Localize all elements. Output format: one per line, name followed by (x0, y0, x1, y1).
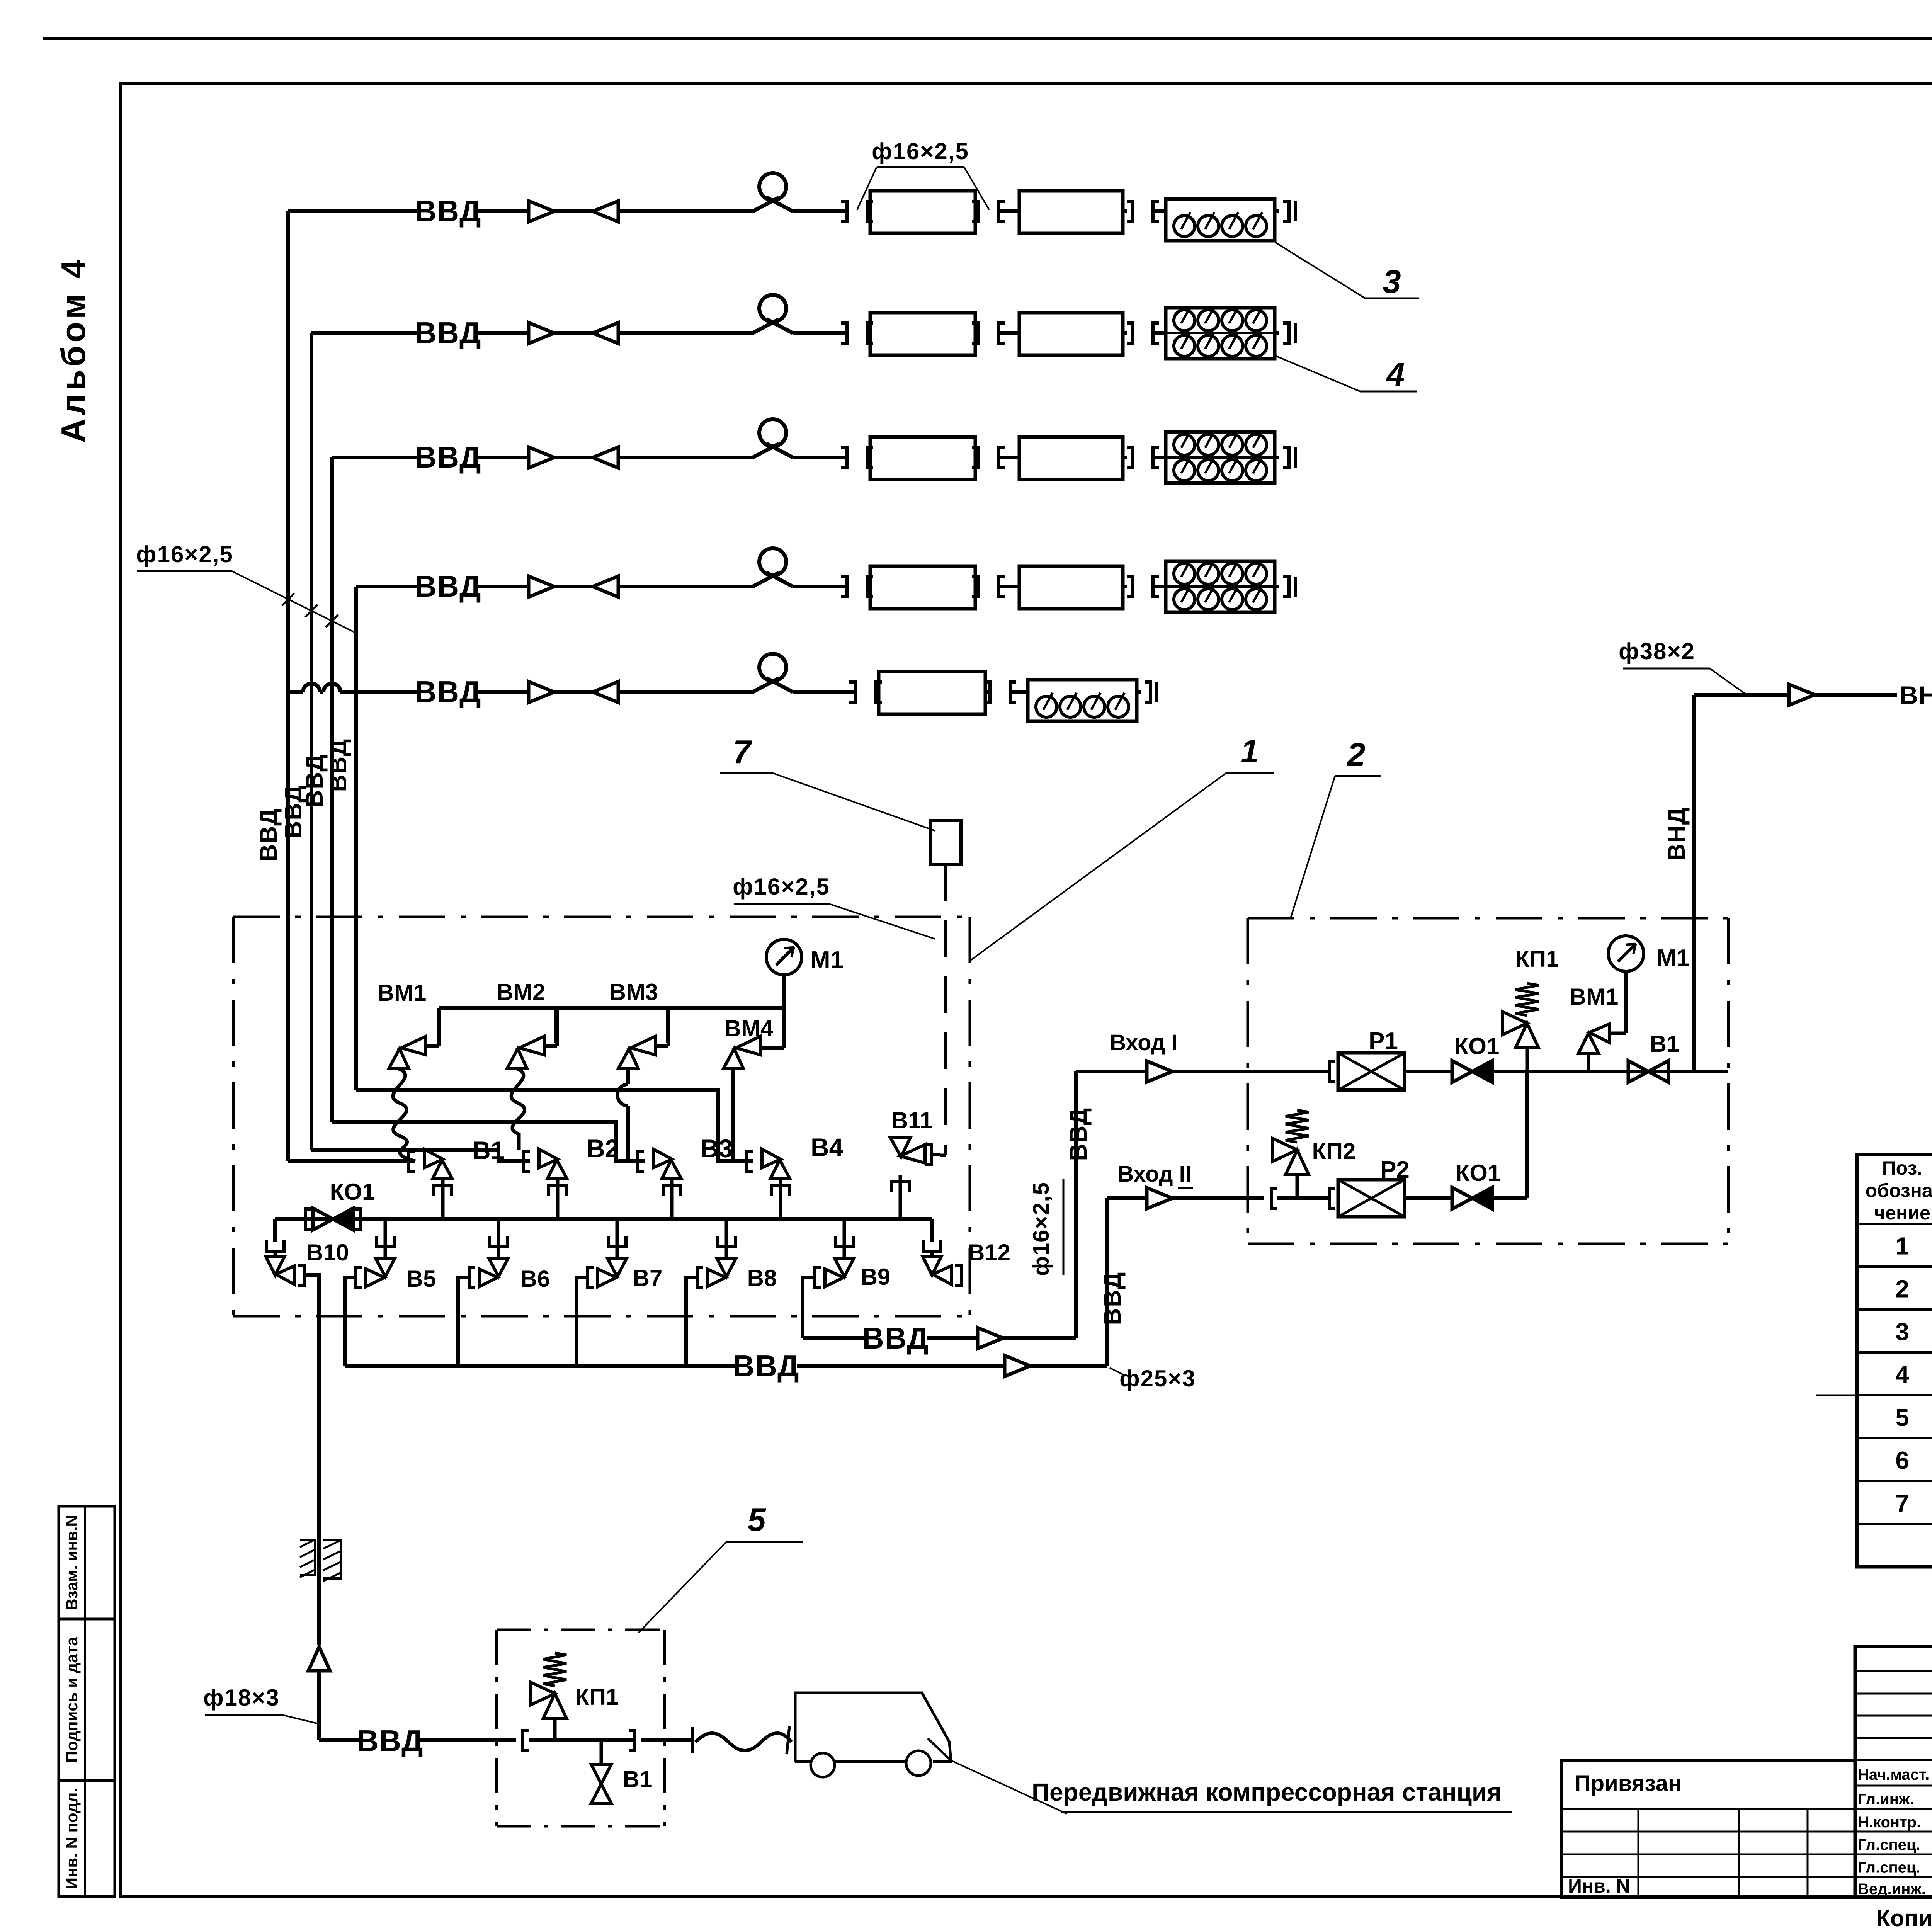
title block Привязан box (1562, 1760, 1855, 1897)
wire bus left end down to В10 (273, 1219, 277, 1242)
svg-text:чение: чение (1874, 1202, 1930, 1224)
svg-text:ВВД: ВВД (415, 440, 481, 474)
wire bottom ВВД to compressor (319, 1738, 363, 1742)
svg-text:ВМ3: ВМ3 (609, 979, 658, 1005)
svg-text:М1: М1 (1656, 945, 1690, 971)
silencer rectangle row 2 a (870, 313, 975, 355)
wire vertical drop row3 x859 (330, 457, 334, 1122)
coupling row 1 d (1275, 209, 1279, 213)
connector before Р1 (1329, 1061, 1335, 1082)
wire step line from x859 to В3 inlet (332, 1122, 645, 1161)
svg-text:В11: В11 (891, 1107, 933, 1133)
silencer rectangle row 2 b (1019, 313, 1123, 355)
valve В2 (524, 1151, 530, 1171)
svg-text:Копир.: Копир. (1876, 1905, 1932, 1931)
receiving column КП box (pos 5) dash-dot border (497, 1629, 665, 1631)
drain cap КД (pos 7) (930, 821, 961, 864)
coupling row 1 b (972, 201, 978, 221)
svg-text:КП2: КП2 (1312, 1138, 1355, 1164)
valve ВМ1 (401, 1036, 426, 1055)
valve В1 (reducer) (1628, 1061, 1648, 1082)
silencer rectangle row 5 (879, 672, 985, 714)
stamp box Взам. инв. N (59, 1506, 115, 1619)
svg-text:Вход I: Вход I (1110, 1030, 1178, 1055)
svg-text:В1: В1 (472, 1136, 505, 1165)
valve В9 (835, 1259, 854, 1277)
flow arrow В9 outlet (978, 1328, 1003, 1349)
svg-text:ф16×2,5: ф16×2,5 (872, 138, 969, 164)
svg-text:ВВД: ВВД (862, 1321, 929, 1355)
flow arrow ВНД (1789, 684, 1815, 705)
connector under В1 (441, 1179, 445, 1219)
wire vertical drop row2 x806 (310, 333, 313, 1150)
flow arrow left row 3 (593, 447, 618, 468)
silencer rectangle row 3 a (870, 437, 975, 480)
svg-text:КО1: КО1 (1454, 1033, 1500, 1059)
leader 1 to control panel (971, 773, 1226, 960)
silencer rectangle row 3 b (1019, 437, 1123, 480)
svg-text:В6: В6 (520, 1266, 550, 1292)
dashed pipe ф16х2,5 from drain cap (944, 864, 947, 1155)
svg-text:КО1: КО1 (1456, 1160, 1501, 1186)
wire through КП box (529, 1738, 634, 1742)
coupling row 3 a (841, 447, 847, 468)
svg-text:7: 7 (1895, 1490, 1909, 1517)
flow arrow left row 1 (593, 201, 618, 222)
svg-text:М1: М1 (810, 947, 844, 973)
svg-text:2: 2 (1346, 736, 1365, 773)
svg-text:Нач.маст.: Нач.маст. (1858, 1766, 1929, 1783)
svg-text:ВМ1: ВМ1 (1570, 984, 1619, 1010)
wire lower ВВД manifold to Вход II riser (345, 1364, 736, 1368)
valve В10 (266, 1240, 284, 1251)
wire row5 left run with crossing hops (288, 690, 303, 694)
flow arrow Вход I (1147, 1061, 1172, 1082)
reducer Р2 (1338, 1180, 1405, 1217)
spring КП2 (1286, 1110, 1309, 1142)
coupling row 4 a (841, 577, 847, 597)
flexible hose to truck (696, 1733, 791, 1751)
reducer panel box (pos 2) dash-dot border (1248, 917, 1728, 920)
connector above В6 (497, 1219, 500, 1259)
svg-text:В1: В1 (1650, 1031, 1680, 1057)
manometer М1 (panel) (766, 939, 802, 975)
spring КП1 (reducer) (1515, 983, 1539, 1015)
connector above В5 (384, 1219, 387, 1259)
svg-text:Р2: Р2 (1380, 1156, 1410, 1183)
svg-text:Вед.инж.: Вед.инж. (1858, 1881, 1926, 1898)
cylinder section battery row 4 (pos 4) (1166, 561, 1275, 612)
flow arrow left row 5 (593, 682, 618, 702)
svg-text:В3: В3 (700, 1134, 733, 1163)
svg-text:КП1: КП1 (575, 1684, 619, 1710)
coupling row 4 d (1275, 585, 1279, 588)
junction vertical between lines (1525, 1071, 1529, 1198)
svg-text:ф16×2,5: ф16×2,5 (1029, 1182, 1054, 1276)
stamp box Подпись и дата (59, 1619, 115, 1781)
truck rear wheel (811, 1753, 835, 1777)
wire Вход I line (1076, 1070, 1147, 1073)
title block signature table (1855, 1646, 1932, 1897)
expansion loop row 1 (753, 197, 779, 211)
silencer rectangle row 1 b (1019, 191, 1123, 233)
valve В1 (409, 1151, 415, 1171)
svg-text:ф16×2,5: ф16×2,5 (136, 541, 233, 567)
coupling row 2 c (1127, 323, 1133, 343)
flow arrow right row 2 (529, 323, 554, 344)
svg-text:В12: В12 (968, 1240, 1010, 1265)
svg-text:ВВД: ВВД (415, 675, 481, 709)
valve В12 (930, 1219, 934, 1242)
svg-text:Передвижная компрессорная стан: Передвижная компрессорная станция (1032, 1778, 1502, 1806)
truck front wheel (906, 1751, 931, 1776)
wire В8 outlet down (686, 1277, 697, 1366)
flow arrow right row 1 (529, 201, 554, 222)
cylinder section battery row 3 (pos 4) (1166, 432, 1275, 483)
connector under В11 (899, 1175, 902, 1219)
flow arrow right row 3 (529, 447, 554, 468)
valve В8 (717, 1259, 736, 1277)
flow arrow left row 4 (593, 576, 618, 597)
coil under ВМ1 (393, 1069, 415, 1161)
valve В5 (376, 1259, 395, 1277)
svg-text:Гл.спец.: Гл.спец. (1858, 1837, 1920, 1854)
silencer rectangle row 4 b (1019, 566, 1123, 609)
svg-text:ф18×3: ф18×3 (203, 1685, 280, 1711)
svg-text:В1: В1 (623, 1766, 653, 1792)
connector under В4 (779, 1179, 782, 1219)
svg-text:Гл.инж.: Гл.инж. (1858, 1791, 1914, 1808)
svg-text:5: 5 (747, 1502, 766, 1538)
svg-text:ВНД: ВНД (1663, 807, 1690, 861)
svg-text:обозна-: обозна- (1866, 1180, 1932, 1201)
connector on Вход II line (1271, 1188, 1277, 1208)
coupling row 5 b (984, 682, 990, 702)
svg-text:Поз.: Поз. (1882, 1157, 1923, 1179)
leader ф16х2,5 across verticals (232, 571, 357, 634)
wire ВВД supply row 2 horizontal (311, 331, 419, 335)
svg-text:В4: В4 (811, 1133, 844, 1162)
svg-text:ВВД: ВВД (415, 194, 481, 228)
valve В7 (608, 1259, 626, 1277)
coupling row 5 c (1137, 690, 1141, 694)
svg-text:4: 4 (1895, 1361, 1909, 1389)
expansion loop row 3 (753, 444, 779, 457)
svg-text:Привязан: Привязан (1575, 1771, 1682, 1796)
svg-text:4: 4 (1386, 356, 1405, 393)
svg-text:Инв. N подл.: Инв. N подл. (63, 1788, 81, 1889)
valve В6 (489, 1259, 508, 1277)
truck windshield line (928, 1738, 951, 1760)
wire В9 outlet to Вход I riser (803, 1336, 866, 1340)
wire riser Вход I (1074, 1071, 1078, 1338)
svg-text:ф16×2,5: ф16×2,5 (733, 874, 830, 900)
connector above В7 (616, 1219, 619, 1259)
svg-text:5: 5 (1895, 1404, 1909, 1432)
svg-text:ВВД: ВВД (1065, 1107, 1092, 1161)
leader 2 to reducer panel (1291, 776, 1335, 918)
connector under В2 (556, 1179, 560, 1219)
wire riser Вход II (1105, 1198, 1109, 1366)
coupling row 3 c (1127, 447, 1133, 468)
svg-text:Альбом 4: Альбом 4 (54, 257, 92, 443)
coupling row 2 d (1275, 331, 1279, 335)
relief valve КП1 (reducer) (1526, 1048, 1529, 1071)
manometer М1 (reducer) (1608, 936, 1644, 971)
svg-text:Вход II: Вход II (1117, 1162, 1192, 1187)
parts list table (1857, 1155, 1932, 1567)
wire В5 outlet down (345, 1277, 356, 1366)
leader to compressor label (951, 1760, 1067, 1814)
leader 7 to drain cap (772, 773, 935, 831)
reducer Р1 (1338, 1053, 1405, 1090)
svg-text:ВВД: ВВД (255, 808, 282, 862)
manifold bus (275, 1217, 932, 1221)
coupling row 4 b (972, 577, 978, 597)
svg-text:ф25×3: ф25×3 (1119, 1366, 1196, 1391)
wire В7 outlet down (577, 1277, 588, 1366)
expansion loop row 2 (753, 319, 779, 333)
relief valve КП2 (1296, 1175, 1299, 1198)
svg-text:В9: В9 (861, 1264, 891, 1290)
spring КП1 (pos 5 box) (543, 1653, 566, 1686)
compressor truck body (795, 1693, 951, 1762)
wire ВНД riser (1692, 695, 1696, 1071)
svg-text:1: 1 (1240, 733, 1259, 770)
wire Вход II line (1107, 1196, 1147, 1200)
valve В1 (pos 5 box) (600, 1740, 603, 1764)
coupling row 3 d (1275, 456, 1279, 459)
svg-text:ВМ2: ВМ2 (497, 979, 546, 1005)
valve В3 (638, 1151, 644, 1171)
connector above В8 (725, 1219, 728, 1259)
control panel box (pos 1) dash-dot border (233, 916, 970, 918)
flow arrow lower manifold (1005, 1355, 1030, 1376)
wire vertical drop row4 x921 (354, 587, 358, 1090)
wire В6 outlet down (458, 1277, 469, 1366)
svg-text:Взам. инв.N: Взам. инв.N (63, 1515, 81, 1610)
svg-text:3: 3 (1383, 264, 1401, 300)
svg-text:ф38×2: ф38×2 (1619, 638, 1695, 664)
wire В9 outlet down (803, 1277, 815, 1338)
coupling row 1 c (1127, 201, 1133, 221)
flow arrow left row 2 (593, 323, 618, 344)
svg-text:КП1: КП1 (1515, 946, 1559, 972)
svg-text:ВНД: ВНД (1900, 681, 1932, 709)
expansion loop row 5 (753, 678, 779, 692)
valve ВМ4 (736, 1036, 760, 1055)
check valve КО1 (reducer upper) (1452, 1061, 1472, 1082)
check valve КО1 (panel) (305, 1209, 311, 1229)
check valve КО1 (reducer lower) (1452, 1187, 1472, 1209)
wire ВВД supply row 5 horizontal (411, 690, 419, 694)
svg-text:В5: В5 (406, 1266, 436, 1292)
wall crossing hatch (317, 1530, 321, 1645)
svg-text:КО1: КО1 (330, 1179, 375, 1205)
coupling row 4 c (1127, 577, 1133, 597)
wire under ВМ4 (731, 1069, 735, 1161)
flow arrow up on riser (308, 1647, 330, 1671)
connector above В9 (843, 1219, 846, 1259)
svg-text:ВВД: ВВД (301, 754, 328, 808)
hose break mark 2 (787, 1726, 789, 1754)
wire ВНД horizontal (1694, 693, 1789, 697)
flow arrow right row 5 (529, 682, 554, 702)
expansion loop row 4 (753, 573, 779, 587)
wire step line from x921 to В4 inlet (356, 1090, 753, 1161)
svg-text:В8: В8 (747, 1265, 777, 1291)
silencer rectangle row 4 a (870, 566, 975, 609)
coil under ВМ2 (511, 1069, 524, 1150)
svg-text:2: 2 (1895, 1275, 1909, 1303)
wire ВВД supply row 3 horizontal (332, 456, 419, 459)
svg-text:ВВД: ВВД (415, 316, 481, 350)
cylinder section battery row 1 (pos 3) (1166, 199, 1275, 241)
valve В4 (747, 1151, 753, 1171)
wire ВВД supply row 4 horizontal (356, 585, 419, 588)
svg-text:Гл.спец.: Гл.спец. (1858, 1859, 1920, 1876)
stamp box Инв. N подл. (59, 1781, 115, 1896)
valve ВМ1 (reducer) (1587, 1053, 1590, 1071)
wire step line from x746 to В1 inlet (288, 1159, 415, 1163)
relief valve КП1 (pos 5 box) (553, 1718, 557, 1740)
connector under В3 (670, 1179, 674, 1219)
svg-text:Р1: Р1 (1369, 1028, 1398, 1054)
valve В11 (925, 1145, 931, 1165)
valve ВМ3 (631, 1036, 655, 1055)
svg-text:В10: В10 (306, 1240, 349, 1265)
coupling row 2 a (841, 323, 847, 343)
svg-text:ВМ4: ВМ4 (724, 1015, 774, 1041)
svg-text:ВВД: ВВД (325, 738, 352, 792)
svg-text:ВМ1: ВМ1 (378, 980, 427, 1006)
cylinder section battery row 5 (1028, 680, 1137, 721)
coupling row 5 a (849, 682, 855, 702)
connector in КП box left (522, 1730, 529, 1750)
connector before Р2 (1329, 1188, 1335, 1208)
wire under ВМ3 with hop (626, 1069, 630, 1084)
coupling row 2 b (972, 323, 978, 343)
svg-text:ВВД: ВВД (415, 569, 481, 603)
svg-text:В7: В7 (633, 1265, 663, 1291)
wire vertical drop row1 x746 (286, 211, 290, 1161)
svg-text:1: 1 (1895, 1232, 1909, 1260)
svg-text:ВВД: ВВД (357, 1724, 423, 1758)
coupling row 1 a (841, 201, 847, 221)
svg-text:ВВД: ВВД (1099, 1272, 1126, 1325)
wire ВВД supply row 1 horizontal (288, 209, 419, 213)
svg-text:В2: В2 (587, 1134, 619, 1163)
svg-text:7: 7 (733, 734, 752, 770)
connector in КП box right (629, 1730, 635, 1750)
svg-text:Инв. N: Инв. N (1568, 1875, 1630, 1897)
silencer rectangle row 1 a (870, 191, 975, 233)
valve ВМ2 (519, 1036, 544, 1055)
leader 5 to КП1 box (638, 1542, 726, 1633)
leader 4 to battery row2 (1275, 355, 1360, 391)
svg-text:3: 3 (1895, 1318, 1909, 1346)
flow arrow Вход II (1147, 1188, 1172, 1209)
svg-text:Н.контр.: Н.контр. (1858, 1814, 1921, 1831)
wire top bus to manometer (439, 1006, 784, 1010)
svg-text:ВВД: ВВД (733, 1349, 799, 1383)
leader 3 to battery row1 (1275, 242, 1365, 298)
sheet outer top border line (43, 37, 1932, 40)
wire В10 outlet down (304, 1275, 319, 1530)
svg-text:Подпись и дата: Подпись и дата (63, 1637, 81, 1763)
cylinder section battery row 2 (pos 4) (1166, 308, 1275, 359)
coupling row 3 b (972, 447, 978, 468)
svg-text:6: 6 (1895, 1447, 1909, 1475)
hose break mark (691, 1727, 694, 1753)
wire step line from x806 to В2 inlet (311, 1150, 530, 1161)
flow arrow right row 4 (529, 576, 554, 597)
